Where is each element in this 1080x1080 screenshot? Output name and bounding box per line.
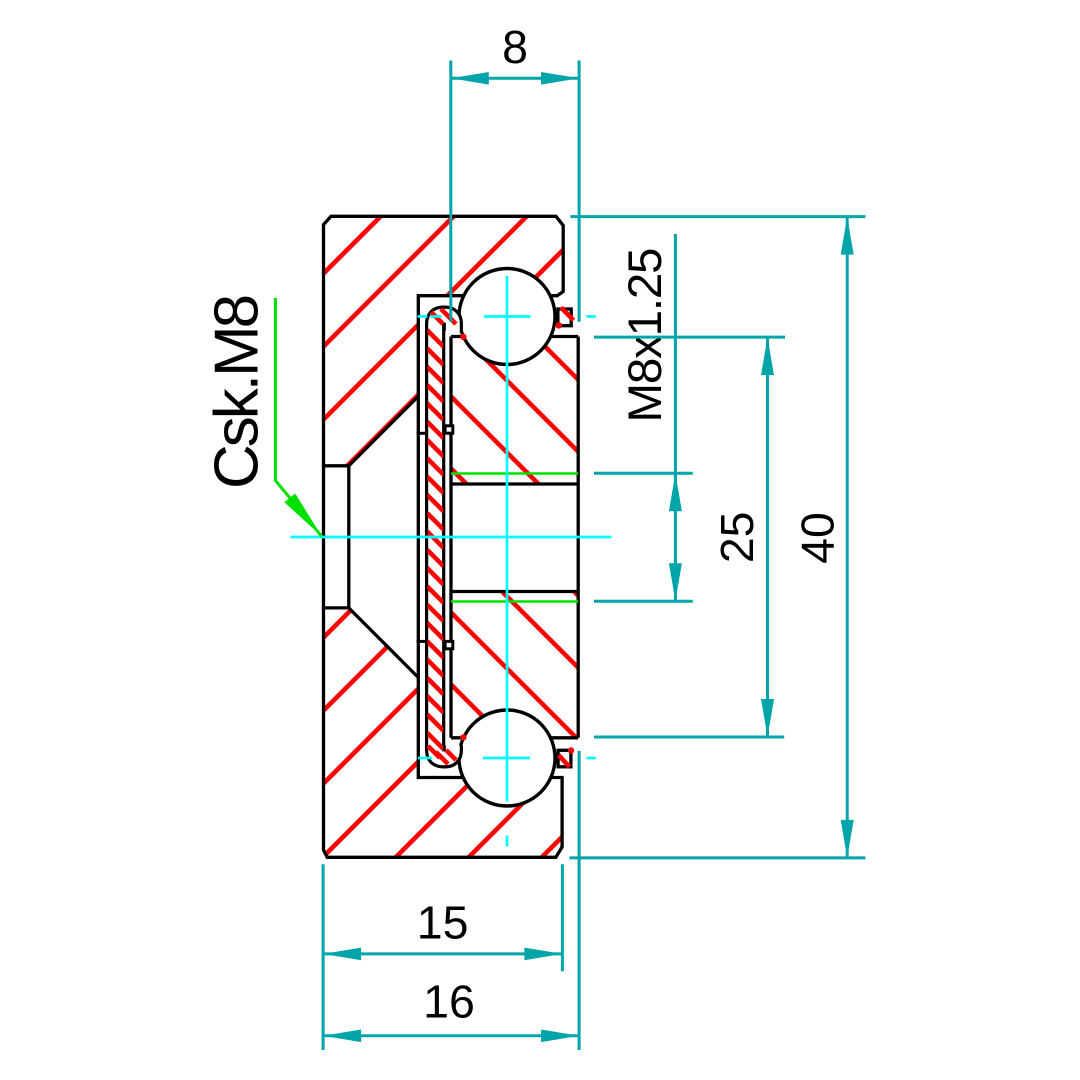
strip hatch dashes: [427, 330, 444, 749]
dimension 16: [323, 751, 579, 1050]
snap ring square top: [558, 309, 571, 326]
red dots: [556, 322, 562, 328]
ball top centerline: [418, 315, 596, 318]
tick left of strip top: [417, 432, 429, 435]
shield strip: [435, 316, 453, 759]
strip hook dashes bottom: [428, 746, 456, 764]
ball bottom centerline: [418, 757, 596, 760]
bushing bore lines: [451, 484, 578, 592]
svg-text:16: 16: [423, 976, 475, 1028]
dimension M8x1.25: [594, 234, 693, 601]
crimp lug bottom: [445, 641, 453, 648]
svg-text:25: 25: [711, 511, 763, 563]
hatch wheel upper lobe: [0, 150, 663, 860]
dimension 40: [569, 217, 865, 858]
countersink Csk.M8: [324, 396, 419, 677]
svg-text:40: 40: [792, 512, 844, 564]
dimension 25: [594, 337, 785, 737]
tick left of strip bottom: [417, 640, 429, 643]
dimension 15: [323, 864, 562, 1050]
svg-text:8: 8: [502, 21, 528, 73]
ball top: [459, 269, 555, 365]
svg-text:Csk.M8: Csk.M8: [203, 296, 272, 489]
svg-text:15: 15: [417, 896, 469, 948]
hatch bushing upper: [420, 222, 620, 638]
leader Csk.M8 (green): [275, 298, 321, 536]
hatch wheel lower lobe: [101, 150, 1080, 860]
outer wheel outline: [324, 216, 564, 857]
thread crest lines (green): [451, 474, 578, 602]
centerline vertical main: [506, 276, 509, 802]
crimp lug top: [445, 426, 453, 433]
threaded bushing outline: [451, 337, 578, 738]
dimension 8 (top): [451, 61, 579, 323]
hatch bushing lower: [420, 438, 620, 854]
strip hook dashes top: [431, 309, 456, 324]
snap ring square bottom: [558, 750, 571, 767]
centerline horizontal main: [291, 536, 612, 539]
ball bottom: [459, 710, 555, 806]
wheel pocket: [418, 296, 463, 778]
